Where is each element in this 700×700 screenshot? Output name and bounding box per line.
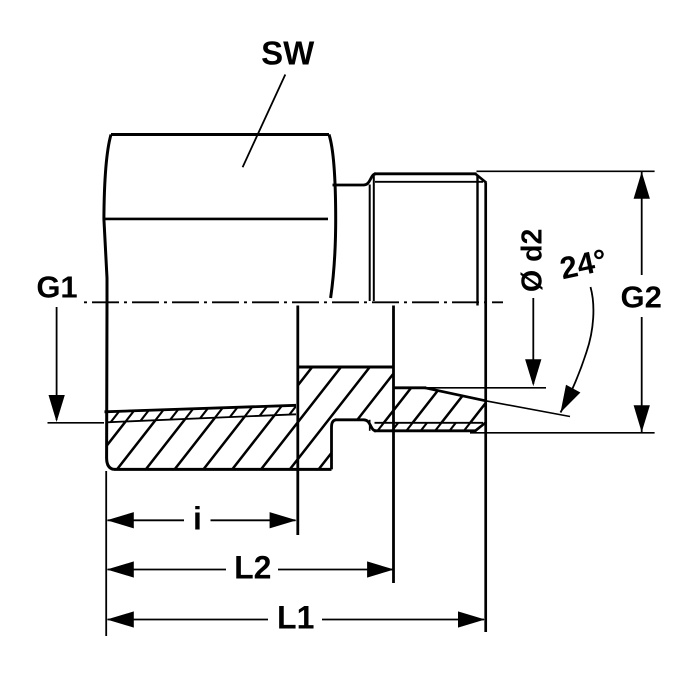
chamfer circle edge vertical [476,175,478,306]
svg-text:G2: G2 [621,280,662,315]
bore step / i extension vertical [296,306,299,536]
thread end chamfer bottom [475,422,486,431]
neck top line [333,174,377,185]
d2 extension line (thin) [427,387,547,389]
left extension line for i L2 L1 [105,471,107,636]
neck bottom line [335,420,376,431]
hex body top edge [111,133,329,136]
hex body left edge [104,135,114,470]
24 degree dimension arc [561,287,594,413]
G1 dimension line [56,307,58,420]
centerline [81,301,503,303]
d2 dimension line [532,298,534,384]
G1 extension line [48,422,105,424]
svg-text:L1: L1 [277,600,314,636]
thread runout vertical 1 [369,185,371,302]
svg-text:Ø d2: Ø d2 [517,229,549,292]
svg-text:L2: L2 [234,550,271,586]
thread major diameter top [374,172,477,175]
female thread root line (thin) [107,414,296,422]
thread runout vertical 2 [373,175,375,301]
thread minor diameter top (thin) [375,181,483,183]
end face / L1 extension vertical [484,183,487,633]
thread major diameter bottom [374,429,477,432]
svg-text:i: i [193,501,202,537]
thread runout vertical bottom [369,420,371,431]
G2 dimension line upper [641,172,643,275]
24 deg cone surface [425,388,486,401]
G2 bottom extension line [470,432,655,434]
L1 dimension line [108,619,269,621]
thread minor diameter bottom (thin) [375,422,484,424]
L2 dimension line [108,569,227,571]
counterbore wall [394,386,427,389]
svg-text:G1: G1 [36,269,77,304]
G2 dimension line lower [641,317,643,432]
thread end chamfer top [475,174,486,183]
hex facet line [104,218,328,221]
hex end face edge in section [332,420,337,470]
section hatching: body material [0,350,614,480]
G2 top extension line [477,170,655,172]
female thread crest line [105,405,297,412]
hex body bottom edge (section) [114,468,332,471]
bore d2 wall [297,366,394,369]
hex body right edge [329,135,336,299]
i dimension line [108,519,185,521]
dense hatching: male thread band [316,416,562,436]
svg-text:SW: SW [261,35,315,72]
counterbore step / L2 extension vertical [392,306,395,584]
dense hatching: female thread band [4,400,575,430]
SW leader line [243,75,286,168]
cone extension line (thin) [486,401,570,417]
